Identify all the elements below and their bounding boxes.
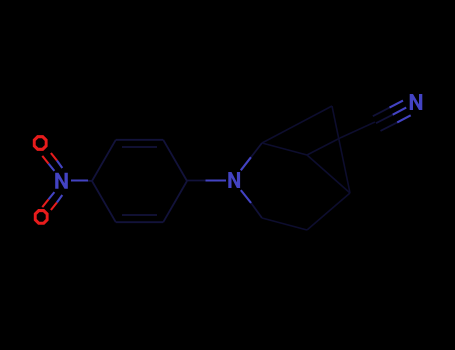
wire amine N to ring C6' dark half: [251, 203, 262, 218]
wire N=O bottom double bond line1 blue half: [49, 192, 55, 199]
wire C6-C1 lower-left edge: [92, 181, 116, 222]
wire C1-C2 upper-left edge: [92, 140, 116, 181]
wire N=O bottom double bond line1 red half: [42, 199, 48, 207]
nitro group: [33, 135, 92, 225]
wire triple bond middle line dark half: [376, 115, 393, 124]
wire C5'-C6': [262, 218, 307, 230]
wire triple bond bottom line dark half: [381, 122, 398, 130]
wire benzene inner double bond top: [122, 146, 157, 148]
wire triple bond middle line bright half: [393, 108, 407, 115]
wire N=O top double bond line2 red half: [51, 153, 57, 161]
wire N=O top double bond line1 red half: [42, 156, 48, 164]
wire C4 to amine N dark half: [187, 180, 206, 182]
wire CH2-C: [340, 122, 375, 138]
atom label amine N: [228, 172, 240, 188]
wire nitro N to C1 bright half: [71, 179, 88, 181]
wire amine N to ring C2' bright stub: [241, 157, 251, 170]
benzene ring C1-C6: [92, 140, 187, 222]
wire N=O bottom double bond line2 red half: [51, 203, 57, 211]
wire C2-C3 top edge: [116, 139, 163, 141]
amine linkage: [187, 143, 262, 218]
wire C1 to nitro N dark half: [84, 180, 92, 183]
wire C4'-C5': [307, 193, 350, 230]
wire C4-C5 lower-right edge: [163, 181, 187, 222]
wire N=O top double bond line1 blue half: [49, 164, 55, 171]
wire benzene inner double bond bottom: [122, 214, 157, 216]
atom label bottom O: [34, 209, 49, 225]
wire C2' branch: [262, 106, 332, 143]
atom label nitro N: [55, 173, 68, 189]
wire C5-C6 bottom edge: [116, 221, 163, 223]
wire triple bond bottom line bright half: [397, 115, 411, 122]
wire C3-C4 upper-right edge: [163, 140, 187, 181]
nitrile chain: [307, 94, 422, 155]
wire C3'-CH2: [307, 138, 340, 155]
wire N=O bottom double bond line2 blue half: [57, 195, 62, 203]
wire amine N to ring C6' bright stub: [241, 190, 251, 203]
wire amine N bright half: [206, 179, 227, 181]
wire N=O top double bond line2 blue half: [57, 161, 62, 169]
wire triple bond top line bright half: [390, 101, 404, 108]
wire amine N to ring C2' dark half: [251, 143, 262, 157]
wire branch descender: [332, 106, 350, 193]
atom label nitrile N: [410, 94, 423, 110]
right ring: [262, 106, 350, 230]
wire C2'-C3': [262, 143, 307, 155]
wire triple bond top line dark half: [373, 108, 390, 117]
atom label top O: [33, 135, 48, 151]
wire C3'-C4': [307, 155, 350, 193]
